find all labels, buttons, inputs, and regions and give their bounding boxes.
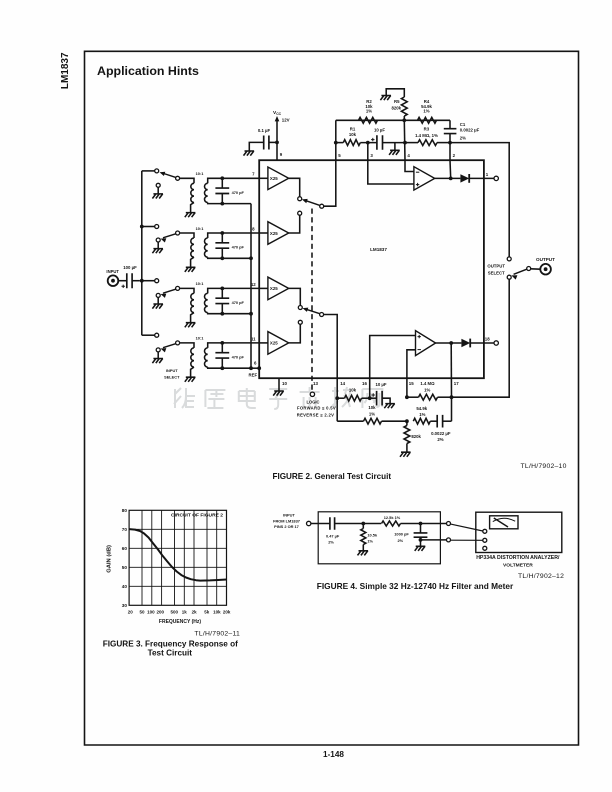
svg-text:FIGURE 3. Frequency Response o: FIGURE 3. Frequency Response of xyxy=(103,639,238,648)
resistor R2 10k xyxy=(359,117,378,123)
Vcc arrow xyxy=(275,116,280,121)
svg-text:54.9k: 54.9k xyxy=(416,406,427,411)
wire to ground branch xyxy=(394,143,396,151)
wire pin14 node to R6 xyxy=(337,397,344,399)
svg-text:X25: X25 xyxy=(270,286,278,291)
meter display xyxy=(490,516,518,529)
svg-text:LOGIC: LOGIC xyxy=(307,400,320,405)
transformer T3 10:1 xyxy=(180,288,194,293)
svg-text:500: 500 xyxy=(170,610,178,615)
meter box HP334A xyxy=(476,512,562,552)
svg-text:200: 200 xyxy=(156,610,164,615)
switch S3a arm (selected to input) xyxy=(162,173,176,177)
svg-text:VOLTMETER: VOLTMETER xyxy=(503,562,533,568)
svg-text:10k: 10k xyxy=(213,610,221,615)
T3 secondary winding xyxy=(204,293,207,312)
wire pin15 to U1b inverting xyxy=(407,350,416,397)
wire feedback bottom channel to select xyxy=(452,279,510,397)
wire pin16 to U1b non-inverting xyxy=(370,336,416,399)
node cap row 3 top xyxy=(220,287,224,291)
node U1a output/pin2 xyxy=(449,177,453,181)
switch S3c ground contact xyxy=(156,293,160,297)
svg-text:2%: 2% xyxy=(460,136,466,141)
svg-text:1%: 1% xyxy=(367,539,373,544)
node cap row 2 top xyxy=(220,231,224,235)
node cap row 2 bottom xyxy=(220,256,224,260)
svg-text:30: 30 xyxy=(122,603,128,608)
svg-text:Application Hints: Application Hints xyxy=(97,64,199,78)
svg-text:15: 15 xyxy=(409,381,414,386)
svg-text:SELECT: SELECT xyxy=(488,270,505,275)
ground T3 primary xyxy=(185,323,196,328)
switch S2b arm xyxy=(305,309,320,314)
svg-text:FIGURE 4. Simple 32 Hz-12740 H: FIGURE 4. Simple 32 Hz-12740 Hz Filter a… xyxy=(317,581,514,591)
buffer amp A3 X25 xyxy=(268,277,289,300)
op-amp U1a xyxy=(414,167,435,190)
T1 secondary winding xyxy=(204,183,207,202)
wire T2 secondary bottom xyxy=(208,257,223,258)
resistor R4 54.9k xyxy=(418,117,437,123)
wire R5 top loop xyxy=(386,89,404,97)
svg-text:LM1837: LM1837 xyxy=(370,247,387,252)
switch S2a wiring from A2 xyxy=(289,215,300,233)
transformer T1 10:1 xyxy=(180,178,194,183)
node pin 17 junction xyxy=(450,395,454,399)
node pin 16 xyxy=(368,396,372,400)
svg-text:CIRCUIT OF FIGURE 2: CIRCUIT OF FIGURE 2 xyxy=(171,512,223,518)
resistor R12 10.5k vertical xyxy=(361,529,366,545)
node cap row 1 bottom xyxy=(220,202,224,206)
terminal filter input xyxy=(307,521,311,525)
svg-text:470 pF: 470 pF xyxy=(232,355,245,360)
terminal pin 18 xyxy=(494,341,498,345)
switch S1 contact lower xyxy=(507,275,511,279)
ground T2 primary xyxy=(185,267,196,272)
node REF bus row4 xyxy=(249,366,253,370)
svg-text:1.4 MΩ: 1.4 MΩ xyxy=(420,381,435,386)
wire REF bus to pin 6 xyxy=(251,367,259,369)
wire T2 primary to ground xyxy=(191,257,194,267)
svg-text:10k: 10k xyxy=(349,132,357,137)
switch S1 arm xyxy=(514,269,527,274)
buffer amp A2 X25 xyxy=(268,222,289,245)
switch S2b wiring from A3 xyxy=(289,288,301,305)
switch S3c arm (to ground) xyxy=(163,289,176,293)
svg-text:Test Circuit: Test Circuit xyxy=(148,649,193,658)
T2 primary winding xyxy=(191,238,194,257)
wire input select bus xyxy=(141,171,143,335)
wire input to C7 xyxy=(311,523,330,525)
svg-text:10.5k: 10.5k xyxy=(367,533,378,538)
svg-text:2%: 2% xyxy=(437,437,443,442)
switch S3d signal contact xyxy=(155,333,159,337)
switch S2b contact lower xyxy=(298,320,302,324)
svg-text:R5: R5 xyxy=(394,99,400,104)
ground C4 xyxy=(384,404,395,409)
svg-text:1%: 1% xyxy=(419,412,425,417)
polarity + of 100 uF xyxy=(122,285,125,288)
wire S2b pole to pin 14 xyxy=(324,315,338,399)
svg-text:LM1837: LM1837 xyxy=(60,52,71,89)
node R2/R4/R5 junction xyxy=(402,118,406,122)
node C8/lower rail xyxy=(419,538,423,542)
wire contact to ground row 4 xyxy=(157,352,159,359)
svg-text:18: 18 xyxy=(485,337,490,342)
ground pin 10 xyxy=(273,391,284,396)
wire T1 primary to ground xyxy=(191,203,194,213)
capacitor 470 pF row 3 xyxy=(221,288,223,298)
switch S2b wiring from A4 xyxy=(289,324,301,343)
svg-text:R3: R3 xyxy=(424,127,430,132)
svg-text:470 pF: 470 pF xyxy=(232,190,245,195)
svg-text:10: 10 xyxy=(282,381,287,386)
switch S1 pole xyxy=(527,267,531,271)
wire pin 3 column xyxy=(367,143,369,161)
switch S3d ground contact xyxy=(156,348,160,352)
T2 secondary winding xyxy=(204,238,207,257)
frequency response curve xyxy=(129,529,226,581)
svg-text:60: 60 xyxy=(122,546,128,551)
node cap row 4 top xyxy=(220,341,224,345)
terminal filter output upper xyxy=(447,522,451,526)
wire row 2 to REF bus xyxy=(222,257,251,259)
wire bus stub row 1 xyxy=(142,170,155,172)
input jack connector xyxy=(108,275,119,286)
svg-text:1-148: 1-148 xyxy=(323,750,344,759)
wire bus stub row 3 xyxy=(142,280,155,282)
svg-text:12.5k 1%: 12.5k 1% xyxy=(384,515,401,520)
wire cap to pin4 node xyxy=(383,142,406,144)
ground row 2 xyxy=(152,249,163,254)
meter terminal 1 xyxy=(483,529,487,533)
svg-text:16: 16 xyxy=(362,381,367,386)
svg-text:13: 13 xyxy=(313,381,318,386)
svg-text:HP334A DISTORTION ANALYZER/: HP334A DISTORTION ANALYZER/ xyxy=(476,555,560,561)
svg-text:1%: 1% xyxy=(424,388,430,393)
node U1b output/pin17 xyxy=(449,341,453,345)
REF bus xyxy=(250,204,252,369)
node Vcc/C-bypass junction xyxy=(275,141,279,145)
capacitor 0.1 uF bypass xyxy=(264,136,269,150)
node cap row 4 bottom xyxy=(220,366,224,370)
svg-text:R1: R1 xyxy=(350,127,356,132)
svg-text:FROM LM1837: FROM LM1837 xyxy=(273,518,300,523)
svg-text:FORWARD ≤ 0.5V: FORWARD ≤ 0.5V xyxy=(297,405,336,410)
switch S3d pole xyxy=(176,341,180,345)
wire pin 7 to A1 xyxy=(259,177,268,179)
wire pin 10 to ground xyxy=(278,378,280,391)
capacitor C2 10 uF xyxy=(377,135,383,150)
node pin15 lower xyxy=(405,419,409,423)
node cap row 1 top xyxy=(220,176,224,180)
wire filter to meter lower xyxy=(451,539,483,541)
switch S2a pole xyxy=(320,204,324,208)
svg-text:10:1: 10:1 xyxy=(196,336,205,341)
wire row 1 to pin xyxy=(222,177,259,179)
svg-text:20: 20 xyxy=(128,610,134,615)
T4 primary winding xyxy=(191,348,194,367)
svg-text:FREQUENCY (Hz): FREQUENCY (Hz) xyxy=(159,619,201,625)
terminal filter output lower xyxy=(447,538,451,542)
svg-text:CC: CC xyxy=(276,112,281,116)
svg-text:0.1 µF: 0.1 µF xyxy=(258,128,271,133)
capacitor C6 100 uF xyxy=(118,280,127,282)
diode D1 xyxy=(460,174,469,182)
wire cap to ground xyxy=(249,142,263,151)
resistor R11 12.5k horizontal xyxy=(382,521,401,526)
ground R8 xyxy=(400,452,411,457)
ground R5 xyxy=(380,96,391,101)
wire U1a output xyxy=(435,177,461,179)
svg-text:470 pF: 470 pF xyxy=(232,300,245,305)
svg-text:0.47 µF: 0.47 µF xyxy=(326,534,340,539)
capacitor 470 pF row 4 xyxy=(221,343,223,353)
dashed switch gang link xyxy=(311,209,313,392)
svg-text:17: 17 xyxy=(454,381,459,386)
wire bus stub row 2 xyxy=(142,226,155,228)
transformer T4 10:1 xyxy=(180,343,194,348)
node pin 15 xyxy=(405,395,409,399)
wire T1 secondary bottom xyxy=(208,203,223,204)
T3 primary winding xyxy=(191,293,194,312)
node input bus junction xyxy=(140,279,144,283)
capacitor C7 0.47 uF xyxy=(330,517,335,530)
resistor R10 1.4 Mohm 1% xyxy=(407,396,419,398)
meter terminal 3 xyxy=(483,546,487,550)
resistor R1 10k xyxy=(343,140,360,146)
ground R12 xyxy=(358,551,369,556)
switch S2a arm xyxy=(305,200,320,205)
switch S3b pole xyxy=(176,231,180,235)
wire pin 11 to A4 xyxy=(259,342,268,344)
ground row 3 xyxy=(152,304,163,309)
wire T4 primary to ground xyxy=(191,367,194,377)
wire T3 secondary top xyxy=(208,288,223,293)
wire U1b output xyxy=(436,342,462,344)
terminal pin 1 xyxy=(494,176,498,180)
wire pin2 into IC xyxy=(449,160,452,178)
wire row 1 to REF bus xyxy=(222,203,251,205)
svg-text:10:1: 10:1 xyxy=(196,226,205,231)
capacitor C1 0.0022 uF xyxy=(449,120,451,128)
resistor R5 820k xyxy=(401,97,407,116)
wire T2 secondary top xyxy=(208,233,223,238)
transformer T2 10:1 xyxy=(180,233,194,238)
svg-text:10:1: 10:1 xyxy=(196,281,205,286)
svg-text:REVERSE ≥ 2.2V: REVERSE ≥ 2.2V xyxy=(297,413,334,418)
svg-text:INPUT: INPUT xyxy=(283,513,295,518)
capacitor C5 0.0022 uF 2% xyxy=(430,420,437,422)
switch S2b pole xyxy=(320,313,324,317)
wire S1 pole to output jack xyxy=(531,268,540,270)
svg-text:10:1: 10:1 xyxy=(196,171,205,176)
node pin 14 xyxy=(335,396,339,400)
switch S3a ground contact xyxy=(156,183,160,187)
node C1/R3/pin2 junction xyxy=(448,141,452,145)
wire T3 primary to ground xyxy=(191,313,194,323)
svg-text:1000 pF: 1000 pF xyxy=(394,532,409,537)
wire pin 8 to A2 xyxy=(259,232,268,234)
svg-text:OUTPUT: OUTPUT xyxy=(487,263,505,268)
wire pin14 down to lower rail xyxy=(336,398,338,421)
switch S2b contact upper xyxy=(298,306,302,310)
wire contact to ground row 3 xyxy=(157,297,159,304)
svg-text:0.0022 µF: 0.0022 µF xyxy=(460,127,480,132)
wire Vcc to pin 9 xyxy=(276,120,278,161)
capacitor C4 10 uF xyxy=(377,391,383,406)
ground 10 uF xyxy=(389,150,400,155)
ground row 1 xyxy=(152,194,163,199)
switch S3b arm (to ground) xyxy=(163,234,176,238)
switch S3d arm (to ground) xyxy=(163,344,176,348)
buffer amp A1 X25 xyxy=(268,167,289,190)
svg-text:X25: X25 xyxy=(270,341,278,346)
wire row 3 to pin xyxy=(222,287,259,289)
node pin 6 xyxy=(257,366,261,370)
switch S2a contact upper xyxy=(298,197,302,201)
switch S3b signal contact xyxy=(155,225,159,229)
T1 primary winding xyxy=(191,183,194,202)
wire R11 to output terminal xyxy=(401,523,447,525)
svg-text:80: 80 xyxy=(122,508,128,513)
svg-text:12V: 12V xyxy=(282,118,290,123)
svg-text:40: 40 xyxy=(122,584,128,589)
node pin4 junction xyxy=(403,141,407,145)
wire row 4 to REF bus xyxy=(222,367,251,369)
polarity + of 10 uF xyxy=(371,138,374,141)
wire row 2 to pin xyxy=(222,232,259,234)
capacitor 470 pF row 2 xyxy=(221,233,223,243)
svg-text:10k: 10k xyxy=(349,388,357,393)
svg-text:TL/H/7902–11: TL/H/7902–11 xyxy=(194,631,240,638)
svg-text:REF: REF xyxy=(248,372,257,377)
wire filter to meter upper xyxy=(451,524,483,531)
svg-text:SELECT: SELECT xyxy=(164,374,180,379)
svg-text:10 µF: 10 µF xyxy=(375,382,386,387)
wire T4 secondary bottom xyxy=(208,367,223,368)
svg-text:70: 70 xyxy=(122,527,128,532)
wire C4 to ground xyxy=(382,398,390,403)
wire R1 to C2 xyxy=(360,142,377,144)
wire T1 secondary top xyxy=(208,178,223,183)
switch S3a signal contact xyxy=(155,169,159,173)
wire contact to ground row 1 xyxy=(157,187,159,194)
wire pin 4 column xyxy=(403,120,406,160)
svg-text:TL/H/7902–10: TL/H/7902–10 xyxy=(521,463,567,470)
node REF bus row2 xyxy=(249,256,253,260)
svg-text:1k: 1k xyxy=(182,610,188,615)
svg-text:820k: 820k xyxy=(391,105,401,110)
wire row 3 to REF bus xyxy=(222,313,251,315)
node pin5/R1 xyxy=(334,141,338,145)
resistor R9 54.9k 1% xyxy=(413,418,430,424)
resistor R8 820k xyxy=(404,426,410,444)
switch S3a pole xyxy=(176,176,180,180)
wire cap to node xyxy=(269,141,277,143)
wire top rail R2-R4 xyxy=(336,119,450,121)
wire pin17 to C5 xyxy=(451,397,453,421)
node R11/C8 xyxy=(419,522,423,526)
polarity + of C4 xyxy=(372,393,375,396)
svg-text:PINS 2 OR 17: PINS 2 OR 17 xyxy=(274,524,299,529)
switch S3c signal contact xyxy=(155,279,159,283)
wire pin 5 column xyxy=(335,120,337,160)
svg-text:5k: 5k xyxy=(204,610,210,615)
svg-text:FIGURE 2. General Test Circuit: FIGURE 2. General Test Circuit xyxy=(273,472,392,481)
ground bypass cap xyxy=(244,151,255,156)
svg-text:14: 14 xyxy=(340,381,345,386)
switch S3b ground contact xyxy=(156,238,160,242)
diode D2 xyxy=(461,339,470,347)
svg-text:470 pF: 470 pF xyxy=(232,245,245,250)
svg-text:X25: X25 xyxy=(270,231,278,236)
figure 3 graph frame xyxy=(129,510,226,605)
wire row 4 to pin xyxy=(222,342,259,344)
switch S2a contact lower xyxy=(298,211,302,215)
page border frame xyxy=(85,51,579,745)
svg-text:100: 100 xyxy=(147,610,155,615)
svg-text:50: 50 xyxy=(139,610,145,615)
svg-text:10k: 10k xyxy=(368,405,376,410)
wire contact to ground row 2 xyxy=(157,242,159,249)
wire pin 12 to A3 xyxy=(259,287,268,289)
svg-text:1%: 1% xyxy=(423,108,429,113)
switch S3c pole xyxy=(176,286,180,290)
svg-text:1%: 1% xyxy=(366,108,372,113)
svg-text:GAIN (dB): GAIN (dB) xyxy=(107,545,113,573)
node bus row2 xyxy=(140,225,144,229)
wire bus stub row 4 xyxy=(142,334,155,336)
svg-text:0.0022 µF: 0.0022 µF xyxy=(431,431,451,436)
wire pin3 to U1a non-inverting xyxy=(368,160,414,184)
resistor R6 10k xyxy=(345,395,362,401)
svg-text:2k: 2k xyxy=(192,610,198,615)
terminal pin 13 logic xyxy=(310,392,314,396)
T4 secondary winding xyxy=(204,348,207,367)
svg-text:10 µF: 10 µF xyxy=(374,127,385,132)
ground T1 primary xyxy=(185,213,196,218)
wire feedback top channel to select xyxy=(450,143,509,257)
resistor R7 10k 1% xyxy=(337,420,363,422)
ground C8 xyxy=(415,546,426,551)
capacitor 470 pF row 1 xyxy=(221,178,223,188)
node pin3 junction xyxy=(366,141,370,145)
ground row 4 xyxy=(152,359,163,364)
resistor R3 1.4 Mohm xyxy=(418,140,437,146)
wire T4 secondary top xyxy=(208,343,223,348)
svg-text:1.4 MΩ, 1%: 1.4 MΩ, 1% xyxy=(415,133,438,138)
filter enclosure box xyxy=(318,512,440,564)
ground T4 primary xyxy=(185,377,196,382)
wire lower rail to output terminal xyxy=(421,539,447,541)
svg-text:2%: 2% xyxy=(328,540,334,545)
wire D2 to pin 18 terminal xyxy=(470,342,494,344)
svg-text:X25: X25 xyxy=(270,176,278,181)
svg-text:100 µF: 100 µF xyxy=(123,265,137,270)
svg-text:TL/H/7902–12: TL/H/7902–12 xyxy=(518,573,564,580)
node cap row 3 bottom xyxy=(220,312,224,316)
meter terminal 2 xyxy=(483,538,487,542)
svg-text:INPUT: INPUT xyxy=(166,368,178,373)
op-amp U1b xyxy=(416,331,436,356)
svg-text:820k: 820k xyxy=(411,434,421,439)
wire pin17 column xyxy=(450,343,452,397)
output jack connector xyxy=(540,264,551,275)
figure 3 graph grid xyxy=(129,510,226,605)
wire S2a pole to pin 5 xyxy=(324,160,336,206)
capacitor C8 1000 pF xyxy=(420,524,422,533)
node REF bus row3 xyxy=(249,312,253,316)
